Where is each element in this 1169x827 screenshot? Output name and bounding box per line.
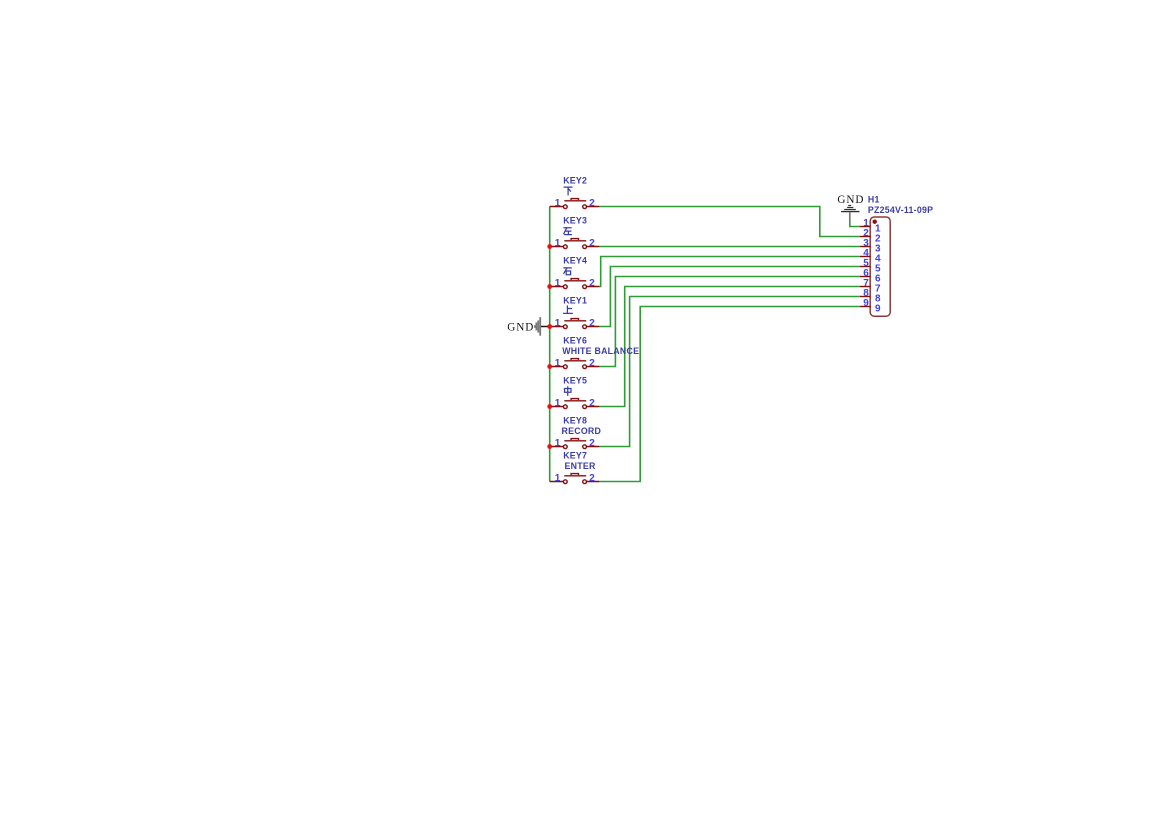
svg-text:RECORD: RECORD xyxy=(562,426,602,436)
svg-text:H1: H1 xyxy=(868,194,880,204)
svg-text:KEY6: KEY6 xyxy=(563,336,587,346)
svg-text:KEY2: KEY2 xyxy=(563,176,587,186)
svg-text:KEY1: KEY1 xyxy=(563,296,587,306)
svg-text:WHITE BALANCE: WHITE BALANCE xyxy=(562,346,639,356)
svg-text:KEY5: KEY5 xyxy=(563,376,587,386)
svg-text:GND: GND xyxy=(837,194,864,206)
svg-text:KEY4: KEY4 xyxy=(563,256,587,266)
svg-text:9: 9 xyxy=(863,298,869,309)
svg-text:KEY7: KEY7 xyxy=(563,451,587,461)
svg-text:PZ254V-11-09P: PZ254V-11-09P xyxy=(868,205,933,215)
svg-text:ENTER: ENTER xyxy=(565,461,596,471)
svg-text:9: 9 xyxy=(875,303,881,314)
svg-text:GND: GND xyxy=(507,321,534,333)
svg-text:KEY3: KEY3 xyxy=(563,216,587,226)
svg-text:KEY8: KEY8 xyxy=(563,416,587,426)
